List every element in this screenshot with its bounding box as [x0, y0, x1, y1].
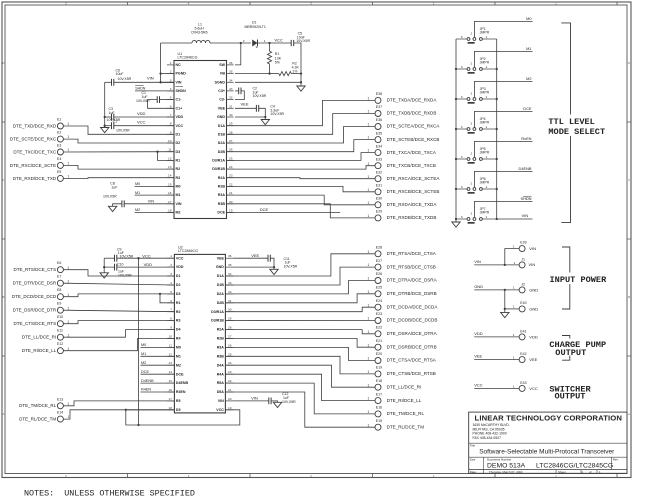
svg-text:10V,X5R: 10V,X5R [118, 273, 132, 277]
svg-text:1: 1 [68, 279, 70, 283]
svg-text:1: 1 [486, 95, 488, 99]
svg-text:DTE_TXDA/DCE_RXDA: DTE_TXDA/DCE_RXDA [387, 98, 438, 103]
svg-text:19: 19 [229, 209, 233, 213]
svg-text:JMPR: JMPR [480, 31, 490, 35]
svg-text:R5A: R5A [217, 381, 225, 385]
svg-text:3: 3 [461, 215, 463, 219]
svg-text:28: 28 [228, 326, 232, 330]
wire E11 to U2 pin 9 [63, 330, 174, 338]
svg-text:24: 24 [229, 165, 233, 169]
ground for C11 [270, 269, 278, 274]
svg-text:1: 1 [513, 333, 515, 337]
wire GND input [474, 289, 519, 291]
svg-text:VIN: VIN [176, 202, 182, 206]
svg-text:1: 1 [368, 343, 370, 347]
svg-text:E9: E9 [57, 302, 61, 306]
svg-text:JMPR: JMPR [480, 211, 490, 215]
svg-text:8: 8 [170, 317, 172, 321]
svg-text:VCC: VCC [216, 408, 224, 412]
svg-text:PGND: PGND [176, 72, 187, 76]
svg-text:E23: E23 [376, 312, 382, 316]
svg-text:10V,X5R: 10V,X5R [116, 129, 130, 133]
svg-text:13: 13 [169, 361, 173, 365]
svg-text:R3B: R3B [217, 354, 225, 358]
svg-text:VDD: VDD [144, 262, 153, 267]
svg-text:D1: D1 [176, 274, 181, 278]
wire E8 to U2 pin 5 [63, 294, 174, 297]
wire U2 pin 27 to E21 [225, 339, 374, 348]
svg-text:Title: Title [470, 443, 476, 447]
svg-text:7: 7 [170, 113, 172, 117]
svg-text:10V,X5R: 10V,X5R [282, 400, 296, 404]
svg-text:DTE_LL/DCE_RI: DTE_LL/DCE_RI [387, 384, 422, 389]
svg-text:DTE_RTS/DCE_CTS: DTE_RTS/DCE_CTS [14, 267, 57, 272]
wire U2 pin 26 to E20 [225, 347, 374, 360]
svg-text:M0: M0 [176, 346, 181, 350]
svg-text:DTE_CTSA/DCE_RTSA: DTE_CTSA/DCE_RTSA [387, 358, 437, 363]
svg-text:27: 27 [228, 335, 232, 339]
svg-text:10: 10 [169, 335, 173, 339]
net label M2 from JP3 [474, 82, 532, 98]
wire VDD output [474, 336, 519, 338]
svg-text:25: 25 [229, 156, 233, 160]
svg-text:1: 1 [368, 330, 370, 334]
svg-text:DTE_RXD/DCE_TXD: DTE_RXD/DCE_TXD [13, 176, 57, 181]
svg-text:C3-: C3- [219, 98, 226, 102]
svg-text:R4EN: R4EN [141, 388, 151, 392]
net label M0 from JP1 [474, 22, 532, 38]
terminal E41 VDD [519, 334, 525, 340]
svg-text:1: 1 [68, 333, 70, 337]
wire U1 pin 25 to E34 [227, 153, 375, 161]
svg-text:32: 32 [228, 290, 232, 294]
svg-text:DTE_DCDB/DCE_DCDB: DTE_DCDB/DCE_DCDB [387, 318, 438, 323]
svg-text:E26: E26 [376, 272, 382, 276]
ground for C4 [261, 120, 269, 125]
svg-text:R5: R5 [176, 399, 181, 403]
net label M1 U1 pin 16 [135, 194, 174, 196]
svg-text:D1B: D1B [218, 132, 226, 136]
CHARGE PUMP bracket [562, 336, 570, 361]
svg-text:1: 1 [368, 423, 370, 427]
svg-text:E19: E19 [376, 366, 382, 370]
net label D4ENB from JP6 [474, 172, 532, 188]
svg-text:9: 9 [170, 326, 172, 330]
svg-text:E33: E33 [376, 157, 382, 161]
svg-text:E10: E10 [57, 315, 63, 319]
svg-text:OUTPUT: OUTPUT [555, 391, 586, 401]
svg-text:JMPR: JMPR [480, 91, 490, 95]
svg-text:VCC: VCC [176, 256, 184, 260]
svg-text:VIN: VIN [522, 213, 529, 218]
capacitor C8 1uF on VIN pin17 [124, 203, 174, 205]
wire SGND pin34 [235, 81, 301, 83]
wire U2 pin 30 to E24 [225, 307, 374, 312]
svg-text:E15: E15 [376, 419, 382, 423]
svg-text:1: 1 [368, 410, 370, 414]
svg-text:4: 4 [170, 281, 172, 285]
svg-text:DTE_DSR/DCE_DTR: DTE_DSR/DCE_DTR [13, 308, 57, 313]
svg-text:VIN: VIN [147, 76, 154, 81]
svg-text:SGND: SGND [215, 80, 226, 84]
svg-text:D2A: D2A [218, 141, 226, 145]
svg-text:D4A: D4A [217, 363, 225, 367]
wire E2 to U1 pin 10 [63, 139, 174, 143]
node GND junction [504, 289, 506, 291]
svg-text:M2: M2 [176, 211, 181, 215]
svg-text:E13: E13 [57, 397, 63, 401]
svg-text:R2: R2 [176, 167, 181, 171]
svg-text:E14: E14 [57, 411, 63, 415]
svg-text:DTE_SCTEA/DCE_RXCA: DTE_SCTEA/DCE_RXCA [387, 124, 441, 129]
svg-text:E24: E24 [376, 299, 382, 303]
svg-text:DTE_CTS/DCE_RTS: DTE_CTS/DCE_RTS [14, 321, 57, 326]
svg-text:5: 5 [170, 290, 172, 294]
svg-text:E28: E28 [376, 246, 382, 250]
jumper JP2 JMPR [456, 68, 467, 70]
svg-text:TTL LEVEL: TTL LEVEL [548, 117, 594, 127]
svg-text:D4ENB: D4ENB [141, 379, 154, 383]
terminal E20 DTE_CTSA/DCE_RTSA [375, 358, 381, 364]
svg-text:J1: J1 [521, 258, 525, 262]
terminal E39 VIN [519, 246, 525, 252]
wire VEE pin31 [235, 107, 256, 109]
svg-text:OUTPUT: OUTPUT [555, 348, 586, 358]
svg-text:26: 26 [229, 148, 233, 152]
svg-text:E34: E34 [376, 144, 382, 148]
net label M2 U2 pin 13 [141, 364, 175, 366]
svg-text:DCE: DCE [176, 372, 184, 376]
svg-text:3: 3 [170, 272, 172, 276]
svg-text:E11: E11 [57, 329, 63, 333]
svg-text:VCC: VCC [274, 38, 283, 43]
wire PGND pin2 tap [161, 73, 174, 75]
svg-text:VCC: VCC [529, 386, 538, 391]
svg-text:1: 1 [513, 286, 515, 290]
svg-text:13: 13 [168, 165, 172, 169]
svg-text:1: 1 [513, 244, 515, 248]
svg-text:29: 29 [228, 317, 232, 321]
svg-text:1: 1 [170, 254, 172, 258]
svg-text:28: 28 [229, 130, 233, 134]
svg-text:1: 1 [486, 125, 488, 129]
svg-text:1: 1 [486, 215, 488, 219]
svg-text:1: 1 [368, 162, 370, 166]
svg-text:C: C [2, 178, 4, 182]
svg-text:E37: E37 [376, 105, 382, 109]
svg-text:E29: E29 [376, 210, 382, 214]
svg-text:E36: E36 [376, 118, 382, 122]
svg-text:21: 21 [229, 191, 233, 195]
svg-text:3: 3 [461, 65, 463, 69]
svg-text:DCE: DCE [217, 211, 225, 215]
svg-text:11: 11 [168, 148, 171, 152]
wire U1 pin 23 to E32 [227, 178, 375, 179]
svg-text:3: 3 [461, 125, 463, 129]
terminal J1 VIN [519, 262, 525, 268]
svg-text:Date:: Date: [470, 470, 477, 474]
terminal E15 DTE_RL/DCE_TM [375, 424, 381, 430]
svg-text:E25: E25 [376, 286, 382, 290]
svg-text:A: A [2, 412, 4, 416]
svg-text:6: 6 [170, 104, 172, 108]
svg-text:1: 1 [368, 110, 370, 114]
wire E10 to U2 pin 8 [63, 321, 174, 324]
svg-text:11: 11 [169, 343, 172, 347]
svg-text:E43: E43 [520, 381, 526, 385]
svg-text:E41: E41 [520, 329, 526, 333]
svg-text:DTE_DCDA/DCE_DCDA: DTE_DCDA/DCE_DCDA [387, 304, 439, 309]
svg-text:M0: M0 [141, 343, 146, 347]
svg-text:R2A: R2A [218, 176, 226, 180]
wire E7 to U2 pin 4 [63, 283, 174, 285]
svg-text:DEMO 513A: DEMO 513A [487, 462, 526, 469]
svg-text:10: 10 [168, 139, 172, 143]
capacitor C2 on C3+/C3- [235, 90, 239, 92]
svg-text:Sheet: Sheet [558, 470, 566, 474]
svg-text:D3/R1A: D3/R1A [211, 310, 224, 314]
terminal E16 DTE_TM/DCE_RL [375, 411, 381, 417]
svg-text:R1: R1 [176, 159, 181, 163]
terminal E11 DTE_LL/DCE_RI [57, 334, 63, 340]
net label SHDN from JP7 [474, 202, 532, 218]
svg-text:VEE: VEE [529, 357, 537, 362]
svg-text:of: of [589, 470, 592, 474]
svg-text:33: 33 [229, 87, 233, 91]
wire E13 to U2 pin 17 [63, 401, 174, 406]
U1 right pin stubs and numbers [227, 64, 234, 66]
svg-text:MBR0520LT1: MBR0520LT1 [245, 25, 266, 29]
svg-text:1: 1 [368, 370, 370, 374]
wire U2 pin 28 to E22 [225, 330, 374, 334]
node VIN junction [504, 264, 506, 266]
wire U2 pin 33 to E27 [225, 267, 374, 285]
svg-text:10V,X5R: 10V,X5R [296, 39, 310, 43]
ground left cap bus [101, 128, 109, 133]
svg-text:5: 5 [170, 96, 172, 100]
terminal E13 DTE_TM/DCE_RL [57, 403, 63, 409]
svg-text:VIN: VIN [529, 246, 536, 251]
svg-text:1: 1 [68, 415, 70, 419]
svg-text:VCC: VCC [142, 253, 151, 258]
op-amp U1 LTC2846CG body [174, 61, 227, 219]
svg-text:DTE_RI/DCE_LL: DTE_RI/DCE_LL [22, 348, 57, 353]
svg-text:10V,X5R: 10V,X5R [103, 195, 117, 199]
svg-text:DTE_DTRB/DCE_DSRB: DTE_DTRB/DCE_DSRB [387, 291, 437, 296]
svg-text:C1-: C1- [176, 98, 183, 102]
svg-text:GND: GND [216, 265, 224, 269]
svg-text:VEE: VEE [218, 106, 226, 110]
svg-text:GND: GND [217, 115, 225, 119]
svg-text:DTE_DTRA/DCE_DSRA: DTE_DTRA/DCE_DSRA [387, 278, 438, 283]
net label RxEN from JP5 [474, 142, 532, 158]
svg-text:JMPR: JMPR [480, 151, 490, 155]
svg-text:C1+: C1+ [176, 106, 183, 110]
svg-text:B: B [2, 295, 4, 299]
svg-text:DTE_RL/DCE_TM: DTE_RL/DCE_TM [387, 424, 425, 429]
svg-text:E31: E31 [376, 184, 382, 188]
jumper JP4 JMPR [456, 128, 467, 130]
title block [469, 412, 627, 473]
svg-text:19: 19 [228, 406, 232, 410]
U2 right pin stubs and numbers [225, 257, 233, 259]
svg-text:VEE: VEE [217, 256, 225, 260]
svg-text:GND: GND [474, 284, 483, 289]
net label DCE U1 pin19 [227, 212, 341, 214]
svg-text:J2: J2 [521, 283, 525, 287]
svg-text:M1: M1 [141, 352, 146, 356]
svg-text:1630 McCARTHY BLVD.: 1630 McCARTHY BLVD. [473, 423, 510, 427]
svg-text:3: 3 [461, 155, 463, 159]
svg-text:1: 1 [514, 261, 516, 265]
svg-text:SHDN: SHDN [135, 87, 146, 91]
svg-text:MILPITAS, CA 95035: MILPITAS, CA 95035 [473, 427, 505, 431]
svg-text:DCE: DCE [523, 106, 532, 111]
wire U2 pin 34 to E28 [225, 254, 374, 276]
ground jumper left bus [452, 222, 460, 227]
svg-text:9: 9 [170, 130, 172, 134]
svg-text:1: 1 [264, 39, 266, 43]
svg-text:D3/R1A: D3/R1A [212, 159, 225, 163]
wire VCC bottom route pin19/pin18 [126, 409, 175, 411]
ground for C5/R2 [297, 86, 305, 91]
svg-text:M1: M1 [176, 354, 181, 358]
svg-text:1: 1 [68, 320, 70, 324]
svg-text:VDD: VDD [176, 265, 184, 269]
wire U1 pin 29 to E38 [227, 100, 375, 125]
terminal E34 DTE_TXCA/DCE_TXCA [375, 150, 381, 156]
wire U1 pin 28 to E37 [227, 114, 375, 135]
svg-text:JMPR: JMPR [480, 61, 490, 65]
terminal E38 DTE_TXDA/DCE_RXDA [375, 97, 381, 103]
svg-text:3: 3 [170, 78, 172, 82]
svg-text:VIN: VIN [148, 200, 155, 204]
terminal E35 DTE_SCTEB/DCE_RXCB [375, 137, 381, 143]
terminal E32 DTE_RXCA/DCE_SCTEA [375, 176, 381, 182]
svg-text:SHDN: SHDN [176, 89, 187, 93]
svg-text:1: 1 [368, 175, 370, 179]
svg-text:18: 18 [168, 209, 172, 213]
wire U2 pin 23 to E17 [225, 374, 374, 400]
svg-text:D5A: D5A [217, 390, 225, 394]
net label DCE U2 pin 14 [141, 373, 175, 375]
svg-text:M2: M2 [135, 208, 140, 212]
svg-text:E6: E6 [57, 261, 61, 265]
svg-text:DTE_RXDB/DCE_TXDB: DTE_RXDB/DCE_TXDB [387, 215, 437, 220]
svg-text:LTC2846CG: LTC2846CG [178, 56, 198, 60]
svg-text:4: 4 [170, 87, 172, 91]
capacitor C3 1uF on VDD [104, 116, 106, 118]
net label M2 U1 pin 18 [135, 212, 174, 214]
svg-text:Document Number: Document Number [487, 457, 511, 461]
svg-text:1: 1 [68, 293, 70, 297]
svg-text:DCE: DCE [141, 370, 149, 374]
svg-text:DTE_RTSA/DCE_CTSA: DTE_RTSA/DCE_CTSA [387, 251, 437, 256]
svg-text:18: 18 [169, 406, 173, 410]
svg-text:17: 17 [169, 397, 173, 401]
svg-text:12: 12 [168, 156, 172, 160]
wire VCC rail after diode [258, 42, 292, 44]
terminal E21 DTE_DSRB/DCE_DTRB [375, 344, 381, 350]
wire U2 pin 25 to E19 [225, 356, 374, 374]
terminal E31 DTE_RXCB/DCE_SCTEB [375, 189, 381, 195]
svg-text:JMPR: JMPR [480, 121, 490, 125]
svg-text:22: 22 [228, 379, 232, 383]
svg-text:1: 1 [513, 356, 515, 360]
svg-text:M1: M1 [135, 191, 140, 195]
svg-text:1: 1 [486, 155, 488, 159]
svg-text:D4ENB: D4ENB [176, 381, 189, 385]
svg-text:DTE_RL/DCE_TM: DTE_RL/DCE_TM [19, 417, 56, 422]
svg-text:10V,X5R: 10V,X5R [120, 254, 134, 258]
svg-text:R1: R1 [176, 301, 181, 305]
wire E6 to U2 pin 3 [63, 270, 174, 276]
wire VCC output [474, 387, 519, 389]
terminal E8 DTE_DCD/DCE_DCD [57, 294, 63, 300]
capacitor C5 [291, 40, 294, 46]
svg-text:1: 1 [368, 317, 370, 321]
svg-text:FB: FB [220, 72, 225, 76]
svg-text:SW: SW [219, 63, 225, 67]
TTL LEVEL MODE SELECT bracket [561, 23, 570, 223]
ground for C9/C10 [103, 267, 105, 273]
svg-text:R3A: R3A [218, 193, 226, 197]
svg-text:7: 7 [170, 308, 172, 312]
terminal E22 DTE_DSRA/DCE_DTRA [375, 331, 381, 337]
svg-text:10V,X5R: 10V,X5R [284, 265, 298, 269]
svg-text:M0: M0 [526, 16, 532, 21]
wire U2 D3/R1 tie [160, 294, 174, 303]
svg-text:D: D [2, 61, 4, 65]
capacitor C6 10uF [105, 81, 112, 83]
svg-text:M1: M1 [176, 193, 181, 197]
terminal E19 DTE_CTSB/DCE_RTSB [375, 371, 381, 377]
svg-text:3: 3 [461, 35, 463, 39]
svg-text:VCC: VCC [474, 382, 483, 387]
svg-text:M0: M0 [176, 185, 181, 189]
svg-text:R2: R2 [176, 310, 181, 314]
svg-text:1uF: 1uF [111, 185, 117, 189]
svg-text:C: C [628, 178, 630, 182]
wire U1 pin 26 to E35 [227, 140, 375, 152]
svg-text:33: 33 [228, 281, 232, 285]
svg-text:20: 20 [229, 200, 233, 204]
svg-text:M0: M0 [135, 182, 140, 186]
svg-text:M1: M1 [526, 46, 531, 51]
svg-text:E7: E7 [57, 275, 61, 279]
svg-text:31: 31 [229, 104, 233, 108]
svg-text:R4: R4 [176, 337, 181, 341]
wire to E40 and ground [504, 290, 506, 313]
svg-text:GND: GND [529, 306, 538, 311]
svg-text:E5: E5 [57, 170, 61, 174]
svg-text:VIN: VIN [251, 395, 258, 400]
svg-text:D3: D3 [176, 150, 181, 154]
svg-text:DTE_CTSB/DCE_RTSB: DTE_CTSB/DCE_RTSB [387, 371, 436, 376]
svg-text:21: 21 [228, 388, 232, 392]
svg-text:25: 25 [228, 352, 232, 356]
svg-text:E20: E20 [376, 352, 382, 356]
terminal E10 DTE_CTS/DCE_RTS [57, 321, 63, 327]
svg-text:DTE_RXCB/DCE_SCTEB: DTE_RXCB/DCE_SCTEB [387, 189, 440, 194]
svg-text:24: 24 [228, 361, 232, 365]
svg-text:1: 1 [368, 250, 370, 254]
terminal E25 DTE_DTRB/DCE_DSRB [375, 291, 381, 297]
svg-text:E27: E27 [376, 259, 382, 263]
ground for C12 [273, 402, 281, 407]
U2 left pin stubs and numbers [167, 257, 174, 259]
svg-text:VDD: VDD [529, 334, 538, 339]
